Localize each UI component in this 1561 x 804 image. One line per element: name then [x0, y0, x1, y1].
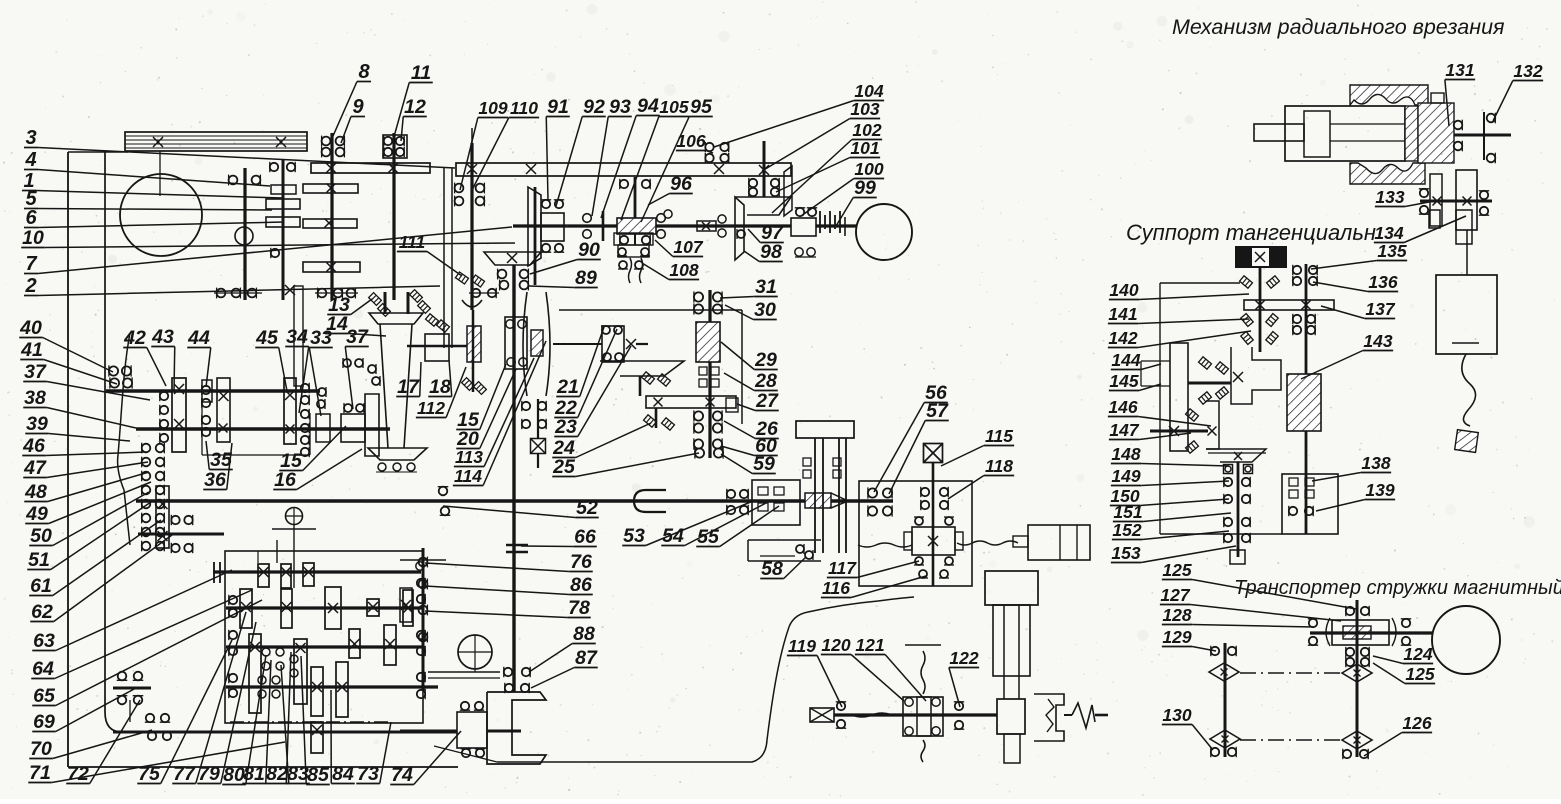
svg-text:109: 109	[478, 98, 507, 118]
svg-text:25: 25	[552, 456, 576, 478]
svg-text:Механизм радиального врезани: Механизм радиального врезания	[1172, 15, 1505, 39]
svg-text:141: 141	[1108, 304, 1137, 324]
svg-text:74: 74	[391, 764, 413, 786]
svg-text:138: 138	[1361, 453, 1390, 473]
svg-text:105: 105	[659, 97, 688, 117]
svg-text:88: 88	[573, 623, 595, 645]
svg-text:84: 84	[332, 763, 354, 785]
svg-text:37: 37	[346, 326, 369, 348]
svg-text:131: 131	[1445, 60, 1474, 80]
svg-text:63: 63	[33, 630, 55, 652]
svg-text:18: 18	[429, 376, 451, 398]
svg-text:66: 66	[574, 526, 596, 548]
svg-text:46: 46	[22, 435, 45, 457]
svg-text:114: 114	[454, 466, 482, 486]
svg-text:95: 95	[690, 96, 713, 118]
svg-text:122: 122	[949, 648, 978, 668]
svg-text:58: 58	[761, 558, 783, 580]
svg-text:87: 87	[575, 647, 598, 669]
svg-text:120: 120	[821, 635, 850, 655]
svg-text:115: 115	[985, 426, 1013, 446]
svg-text:140: 140	[1109, 280, 1138, 300]
svg-text:100: 100	[854, 159, 883, 179]
svg-text:86: 86	[570, 574, 592, 596]
svg-text:49: 49	[25, 503, 48, 525]
svg-text:104: 104	[854, 81, 883, 101]
svg-text:51: 51	[28, 549, 50, 571]
svg-text:119: 119	[788, 636, 816, 656]
svg-text:11: 11	[411, 62, 431, 84]
svg-text:59: 59	[753, 453, 775, 475]
svg-text:71: 71	[29, 762, 51, 784]
svg-text:152: 152	[1112, 520, 1141, 540]
svg-text:110: 110	[510, 98, 538, 118]
svg-text:77: 77	[173, 763, 196, 785]
svg-text:10: 10	[22, 227, 44, 249]
svg-text:118: 118	[985, 456, 1013, 476]
svg-text:98: 98	[760, 241, 782, 263]
svg-text:132: 132	[1513, 61, 1542, 81]
svg-text:93: 93	[609, 96, 631, 118]
svg-text:57: 57	[926, 400, 949, 422]
svg-text:117: 117	[828, 558, 857, 578]
svg-text:28: 28	[754, 370, 777, 392]
svg-text:133: 133	[1375, 187, 1404, 207]
svg-text:34: 34	[286, 326, 308, 348]
svg-text:31: 31	[755, 276, 777, 298]
svg-text:62: 62	[31, 601, 53, 623]
svg-text:94: 94	[637, 95, 659, 117]
svg-text:Суппорт тангенциальн: Суппорт тангенциальн	[1126, 220, 1376, 245]
svg-text:29: 29	[754, 349, 777, 371]
svg-text:6: 6	[25, 207, 37, 229]
svg-text:21: 21	[556, 376, 579, 398]
svg-text:137: 137	[1365, 299, 1395, 319]
svg-text:127: 127	[1160, 585, 1190, 605]
svg-text:113: 113	[455, 447, 483, 467]
svg-text:54: 54	[662, 525, 684, 547]
svg-text:125: 125	[1162, 560, 1191, 580]
svg-text:75: 75	[138, 763, 161, 785]
svg-text:125: 125	[1405, 664, 1434, 684]
svg-text:72: 72	[67, 763, 89, 785]
svg-text:70: 70	[30, 738, 52, 760]
svg-text:146: 146	[1108, 397, 1137, 417]
svg-text:145: 145	[1109, 371, 1138, 391]
svg-text:102: 102	[852, 120, 881, 140]
svg-text:151: 151	[1113, 502, 1142, 522]
svg-text:40: 40	[19, 317, 42, 339]
svg-text:41: 41	[20, 339, 43, 361]
svg-text:91: 91	[547, 96, 569, 118]
svg-text:37: 37	[24, 361, 47, 383]
svg-text:16: 16	[274, 469, 296, 491]
svg-text:111: 111	[399, 232, 426, 252]
svg-text:81: 81	[243, 763, 265, 785]
svg-text:64: 64	[32, 658, 54, 680]
svg-text:45: 45	[255, 327, 279, 349]
svg-text:130: 130	[1162, 705, 1191, 725]
svg-text:17: 17	[397, 376, 420, 398]
svg-text:149: 149	[1111, 466, 1140, 486]
svg-text:85: 85	[307, 764, 330, 786]
svg-text:112: 112	[417, 398, 445, 418]
svg-text:3: 3	[25, 127, 36, 149]
svg-text:36: 36	[204, 469, 226, 491]
svg-text:106: 106	[676, 131, 705, 151]
svg-text:73: 73	[357, 763, 379, 785]
svg-text:8: 8	[358, 61, 370, 83]
svg-text:53: 53	[623, 525, 645, 547]
svg-text:99: 99	[854, 177, 876, 199]
svg-text:103: 103	[850, 99, 879, 119]
svg-text:39: 39	[26, 413, 48, 435]
svg-text:144: 144	[1111, 350, 1140, 370]
svg-text:2: 2	[24, 275, 36, 297]
svg-text:147: 147	[1109, 420, 1139, 440]
svg-text:47: 47	[23, 457, 47, 479]
svg-text:136: 136	[1368, 272, 1397, 292]
svg-text:38: 38	[24, 387, 46, 409]
svg-text:96: 96	[670, 173, 692, 195]
svg-text:42: 42	[123, 327, 146, 349]
svg-text:61: 61	[30, 575, 52, 597]
svg-text:90: 90	[578, 239, 600, 261]
svg-text:69: 69	[33, 711, 55, 733]
svg-text:108: 108	[669, 260, 698, 280]
svg-text:76: 76	[570, 551, 592, 573]
svg-text:4: 4	[24, 149, 36, 171]
svg-text:44: 44	[187, 327, 210, 349]
svg-text:124: 124	[1403, 644, 1432, 664]
svg-text:33: 33	[310, 327, 332, 349]
svg-text:50: 50	[30, 525, 52, 547]
svg-text:101: 101	[850, 138, 879, 158]
svg-text:126: 126	[1402, 713, 1431, 733]
svg-text:79: 79	[198, 763, 220, 785]
svg-text:89: 89	[575, 267, 597, 289]
svg-text:148: 148	[1111, 444, 1140, 464]
svg-text:82: 82	[266, 763, 288, 785]
svg-text:43: 43	[151, 326, 174, 348]
svg-text:92: 92	[583, 96, 605, 118]
svg-text:27: 27	[755, 390, 779, 412]
svg-text:9: 9	[352, 96, 364, 118]
svg-text:23: 23	[554, 416, 577, 438]
svg-text:52: 52	[576, 497, 598, 519]
svg-text:134: 134	[1374, 223, 1403, 243]
svg-text:128: 128	[1162, 605, 1191, 625]
svg-text:129: 129	[1162, 627, 1191, 647]
svg-text:30: 30	[754, 299, 776, 321]
svg-text:139: 139	[1365, 480, 1394, 500]
svg-text:12: 12	[404, 96, 426, 118]
svg-text:48: 48	[24, 481, 47, 503]
svg-text:65: 65	[33, 685, 56, 707]
svg-text:142: 142	[1108, 328, 1137, 348]
svg-text:78: 78	[568, 597, 590, 619]
svg-text:7: 7	[25, 253, 37, 275]
svg-text:135: 135	[1377, 241, 1406, 261]
svg-text:80: 80	[223, 764, 245, 786]
svg-text:116: 116	[822, 578, 850, 598]
svg-text:107: 107	[673, 237, 703, 257]
svg-text:143: 143	[1363, 331, 1392, 351]
svg-text:153: 153	[1111, 543, 1140, 563]
